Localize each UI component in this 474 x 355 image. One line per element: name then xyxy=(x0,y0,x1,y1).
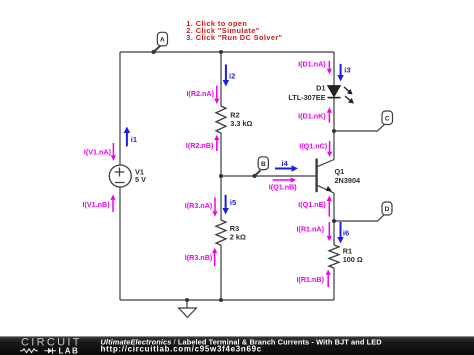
wire bottom rail xyxy=(120,299,334,301)
branch current I(D1.nA) xyxy=(298,60,332,75)
svg-text:I(R3.nA): I(R3.nA) xyxy=(185,201,213,210)
branch current I(Q1.nB) xyxy=(269,177,298,191)
current arrow i3 xyxy=(337,64,350,82)
wire left upper (top rail to V1) xyxy=(119,52,121,165)
ground xyxy=(179,300,197,317)
branch current I(R1.nA) xyxy=(296,222,331,241)
branch current I(Q1.nC) xyxy=(299,141,332,157)
svg-text:http://circuitlab.com/c95w3f4e: http://circuitlab.com/c95w3f4e3n69c xyxy=(101,344,262,353)
current arrow i6 xyxy=(337,222,349,244)
label R1 value xyxy=(343,247,363,264)
wire node C stub xyxy=(334,125,384,131)
svg-text:i6: i6 xyxy=(343,228,349,237)
svg-text:I(R3.nB): I(R3.nB) xyxy=(185,253,213,262)
node flag A xyxy=(157,32,167,46)
resistor R3 xyxy=(216,220,226,245)
svg-text:2N3904: 2N3904 xyxy=(335,176,362,185)
current arrow i5 xyxy=(222,195,236,215)
branch current I(V1.nB) xyxy=(82,195,115,212)
voltage source V1 xyxy=(109,165,131,187)
svg-text:I(R2.nB): I(R2.nB) xyxy=(186,141,214,150)
wire middle branch top (rail to R2) xyxy=(220,52,222,106)
wire node B stub xyxy=(255,170,261,176)
resistor R1 xyxy=(329,245,339,268)
svg-text:i1: i1 xyxy=(131,135,137,144)
junction at node C xyxy=(332,129,336,133)
svg-text:I(Q1.nC): I(Q1.nC) xyxy=(299,141,328,150)
wire R1 to bottom rail xyxy=(333,268,335,300)
current arrow i4 xyxy=(275,159,298,172)
resistor R2 xyxy=(216,106,226,133)
svg-text:5 V: 5 V xyxy=(135,175,146,184)
svg-text:A: A xyxy=(160,37,165,44)
node flag D xyxy=(382,202,392,215)
svg-text:B: B xyxy=(261,161,266,168)
svg-text:I(R1.nB): I(R1.nB) xyxy=(296,275,324,284)
junction base / R2-R3 xyxy=(219,174,223,178)
svg-text:I(D1.nA): I(D1.nA) xyxy=(298,60,326,69)
svg-text:D1: D1 xyxy=(316,84,325,93)
junction at node D xyxy=(332,219,336,223)
wire D1 cathode to node C xyxy=(333,98,335,132)
svg-text:I(V1.nB): I(V1.nB) xyxy=(82,200,110,209)
wire node C to Q1 collector xyxy=(333,131,335,160)
LED D1 xyxy=(328,86,354,104)
wire node D stub xyxy=(334,215,384,221)
annotation instructions xyxy=(186,19,282,42)
svg-text:R3: R3 xyxy=(230,224,239,233)
label R3 value xyxy=(230,224,246,242)
svg-text:D: D xyxy=(385,206,390,213)
label R2 value xyxy=(230,110,252,127)
label V1 value xyxy=(135,167,146,184)
svg-text:I(V1.nA): I(V1.nA) xyxy=(84,147,112,156)
branch current I(D1.nK) xyxy=(298,107,332,122)
svg-text:LTL-307EE: LTL-307EE xyxy=(288,93,325,102)
junction at node A xyxy=(152,50,156,54)
wire middle branch mid (R2 to R3 through node B) xyxy=(220,133,222,220)
svg-text:I(D1.nK): I(D1.nK) xyxy=(298,111,326,120)
svg-text:3. Click "Run DC Solver": 3. Click "Run DC Solver" xyxy=(186,33,282,42)
svg-text:Q1: Q1 xyxy=(335,167,345,176)
junction ground xyxy=(185,298,189,302)
node flag C xyxy=(382,111,393,125)
svg-text:3.3 kΩ: 3.3 kΩ xyxy=(230,119,252,128)
wire base (node B to Q1 base) xyxy=(221,175,317,177)
node flag B xyxy=(258,157,268,170)
branch current I(R3.nA) xyxy=(185,197,218,216)
current arrow i1 xyxy=(124,127,137,147)
transistor Q1 xyxy=(317,159,334,194)
current arrow i2 xyxy=(223,65,236,87)
junction top rail / R2 branch xyxy=(219,50,223,54)
svg-text:I(R2.nA): I(R2.nA) xyxy=(186,89,214,98)
junction at node B xyxy=(253,174,257,178)
wire middle branch bottom (R3 to bottom rail) xyxy=(220,245,222,300)
wire node D to R1 xyxy=(333,221,335,245)
branch current I(V1.nA) xyxy=(84,143,116,161)
label Q1 value xyxy=(335,167,362,185)
branch current I(R1.nB) xyxy=(296,270,330,288)
svg-text:i4: i4 xyxy=(282,159,289,168)
wire right branch top (rail to D1 anode) xyxy=(333,52,335,86)
svg-text:I(Q1.nB): I(Q1.nB) xyxy=(269,183,298,192)
branch current I(R3.nB) xyxy=(185,248,218,266)
branch current I(Q1.nE) xyxy=(298,196,332,217)
wire left lower (V1 to bottom rail) xyxy=(119,187,121,300)
wire top rail xyxy=(120,51,334,53)
svg-text:i3: i3 xyxy=(344,65,350,74)
junction bottom rail / R3 branch xyxy=(219,298,223,302)
svg-text:i5: i5 xyxy=(230,198,236,207)
branch current I(R2.nA) xyxy=(186,86,219,105)
svg-text:I(Q1.nE): I(Q1.nE) xyxy=(298,200,326,209)
svg-text:LAB: LAB xyxy=(59,346,80,355)
svg-text:C: C xyxy=(385,115,390,122)
label D1 value xyxy=(288,84,325,102)
branch current I(R2.nB) xyxy=(186,135,220,151)
footer bar xyxy=(0,336,474,355)
svg-text:i2: i2 xyxy=(229,72,235,81)
wire Q1 emitter to node D xyxy=(333,193,335,221)
svg-text:2 kΩ: 2 kΩ xyxy=(230,233,246,242)
wire node A stub xyxy=(154,46,161,53)
footer logo resistor-diode glyph xyxy=(20,348,56,354)
svg-text:100 Ω: 100 Ω xyxy=(343,255,363,264)
svg-text:I(R1.nA): I(R1.nA) xyxy=(296,225,324,234)
